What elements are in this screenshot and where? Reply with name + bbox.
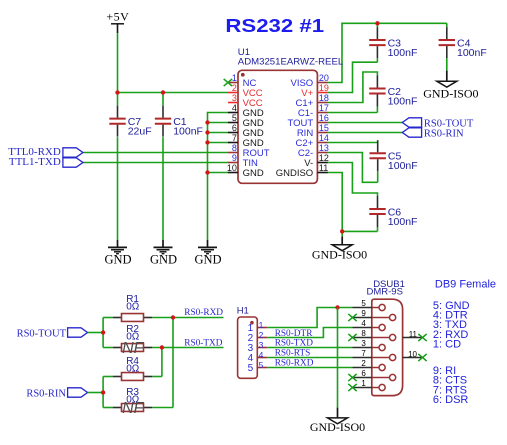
svg-text:6: 6 — [361, 369, 366, 378]
svg-text:16: 16 — [319, 113, 329, 123]
svg-text:13: 13 — [319, 143, 329, 153]
svg-text:3: 3 — [361, 339, 366, 348]
svg-text:GND-ISO0: GND-ISO0 — [310, 420, 365, 434]
svg-text:10: 10 — [227, 163, 237, 173]
svg-text:18: 18 — [319, 93, 329, 103]
svg-text:20: 20 — [319, 73, 329, 83]
svg-text:R4: R4 — [126, 356, 139, 367]
svg-text:17: 17 — [319, 103, 329, 113]
svg-text:GND: GND — [194, 253, 221, 267]
svg-text:5: 5 — [248, 363, 254, 374]
svg-text:GND: GND — [243, 168, 264, 179]
svg-text:NF: NF — [122, 400, 145, 417]
svg-text:15: 15 — [319, 123, 329, 133]
svg-text:11: 11 — [409, 330, 418, 339]
svg-text:1: 1 — [361, 379, 366, 388]
svg-text:8: 8 — [232, 143, 237, 153]
svg-text:ADM3251EARWZ-REEL: ADM3251EARWZ-REEL — [238, 57, 344, 68]
svg-text:RS0-RTS: RS0-RTS — [275, 349, 311, 359]
svg-text:DB9 Female: DB9 Female — [435, 278, 496, 290]
svg-text:H1: H1 — [237, 306, 249, 317]
svg-text:100nF: 100nF — [388, 47, 418, 59]
svg-text:GND-ISO0: GND-ISO0 — [312, 247, 367, 261]
svg-text:22uF: 22uF — [128, 126, 152, 138]
svg-text:5: 5 — [361, 299, 366, 308]
svg-text:1: 1 — [232, 73, 237, 83]
svg-text:6: 6 — [232, 123, 237, 133]
svg-text:RS0-RIN: RS0-RIN — [26, 388, 66, 399]
svg-text:RS0-TOUT: RS0-TOUT — [17, 328, 67, 339]
svg-text:100nF: 100nF — [457, 47, 487, 59]
svg-text:100nF: 100nF — [388, 160, 418, 172]
svg-text:100nF: 100nF — [173, 126, 203, 138]
svg-text:GND: GND — [104, 253, 131, 267]
svg-text:19: 19 — [319, 83, 329, 93]
svg-text:7: 7 — [232, 133, 237, 143]
svg-text:R3: R3 — [126, 387, 139, 398]
svg-text:+5V: +5V — [106, 9, 129, 23]
svg-text:NF: NF — [122, 340, 145, 357]
svg-text:100nF: 100nF — [388, 216, 418, 228]
svg-text:7: 7 — [361, 349, 366, 358]
svg-text:RS0-TXD: RS0-TXD — [184, 338, 223, 348]
svg-text:2: 2 — [232, 83, 237, 93]
svg-text:RS0-RXD: RS0-RXD — [275, 359, 314, 369]
svg-text:3: 3 — [232, 93, 237, 103]
svg-text:4: 4 — [232, 103, 237, 113]
svg-text:11: 11 — [319, 163, 328, 173]
svg-text:3: 3 — [259, 340, 264, 350]
svg-text:R1: R1 — [126, 294, 139, 305]
svg-text:9: 9 — [232, 153, 237, 163]
svg-text:6: DSR: 6: DSR — [433, 394, 469, 406]
svg-text:100nF: 100nF — [388, 95, 418, 107]
svg-text:14: 14 — [319, 133, 329, 143]
svg-text:10: 10 — [408, 350, 417, 359]
svg-text:5: 5 — [232, 113, 237, 123]
svg-text:2: 2 — [259, 330, 264, 340]
svg-text:4: 4 — [259, 350, 264, 360]
svg-text:9: 9 — [361, 309, 366, 318]
svg-text:TTL1-TXD: TTL1-TXD — [9, 156, 61, 168]
svg-text:RS0-TXD: RS0-TXD — [275, 339, 314, 349]
svg-text:1: CD: 1: CD — [433, 339, 461, 351]
svg-text:8: 8 — [361, 329, 366, 338]
svg-text:RS0-RIN: RS0-RIN — [424, 128, 464, 139]
svg-text:12: 12 — [319, 153, 329, 163]
svg-text:2: 2 — [361, 359, 366, 368]
svg-text:1: 1 — [259, 320, 264, 330]
svg-text:GND-ISO0: GND-ISO0 — [423, 86, 478, 100]
svg-text:RS0-DTR: RS0-DTR — [275, 329, 314, 339]
svg-text:DMR-9S: DMR-9S — [367, 287, 403, 298]
svg-text:5: 5 — [259, 360, 264, 370]
svg-text:GND: GND — [150, 253, 177, 267]
svg-text:RS0-RXD: RS0-RXD — [184, 308, 223, 318]
svg-text:4: 4 — [361, 319, 366, 328]
svg-text:R2: R2 — [126, 324, 139, 335]
svg-text:RS232 #1: RS232 #1 — [225, 16, 324, 36]
svg-text:GNDISO: GNDISO — [276, 168, 313, 179]
